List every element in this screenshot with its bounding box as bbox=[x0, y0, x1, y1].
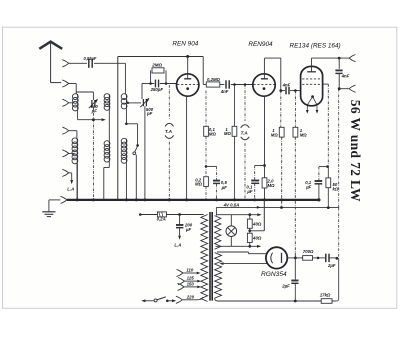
wire mains pole to switch bbox=[141, 299, 145, 302]
resistor 17kOhm field bbox=[321, 299, 332, 304]
svg-text:MΩ: MΩ bbox=[209, 131, 217, 136]
coil L5 bbox=[125, 139, 127, 163]
terminal tap 150V bbox=[178, 283, 185, 290]
svg-text:150: 150 bbox=[187, 281, 195, 286]
coil L6 secondary LW bbox=[108, 141, 110, 162]
wire T7 to ground bbox=[49, 199, 60, 201]
capacitor 0,5uF bbox=[216, 166, 218, 180]
node TA2 tap bbox=[244, 83, 247, 86]
terminal speaker - bbox=[349, 85, 356, 92]
resistor 700Ohm smoothing bbox=[303, 256, 313, 261]
svg-text:T.A: T.A bbox=[241, 130, 248, 135]
resistor 0.2MOhm lower bbox=[204, 177, 209, 187]
capacitor 0,1uF cathode bypass bbox=[251, 180, 259, 182]
wire cap to output line bbox=[329, 257, 336, 259]
svg-text:kΩ: kΩ bbox=[333, 187, 339, 192]
svg-text:56 W und 72 LW: 56 W und 72 LW bbox=[348, 100, 363, 202]
svg-text:MΩ: MΩ bbox=[300, 132, 308, 137]
terminal T1 antenna input bbox=[62, 60, 69, 67]
mains switch bbox=[154, 299, 157, 302]
svg-text:µF: µF bbox=[185, 227, 191, 232]
right rail wire bbox=[338, 89, 340, 208]
wire V2 cathode down bbox=[264, 96, 266, 165]
terminal tap 125V bbox=[178, 278, 185, 285]
terminal T4 bbox=[62, 127, 69, 134]
wire HV filament return with plug arrow bbox=[219, 262, 223, 265]
wire V1 cathode to bus bbox=[186, 96, 188, 200]
wire mains to fuse bbox=[139, 213, 142, 216]
wire L1 bottom to node bbox=[77, 111, 79, 120]
svg-text:0,2MΩ: 0,2MΩ bbox=[207, 77, 221, 82]
node cathode network bbox=[263, 164, 266, 167]
wire antenna down-lead bbox=[50, 42, 52, 83]
coil L3 secondary MW bbox=[108, 94, 110, 110]
node TA1 / connector T.A #1 bbox=[168, 85, 170, 120]
wire HV top to rectifier bbox=[217, 251, 249, 253]
svg-text:40Ω: 40Ω bbox=[252, 235, 262, 240]
transformer secondary 4V winding bbox=[215, 216, 221, 250]
terminal T3 bbox=[62, 99, 69, 106]
antenna symbol bbox=[39, 42, 62, 49]
terminal tap 220V bbox=[176, 296, 183, 303]
svg-text:RGN354: RGN354 bbox=[261, 271, 287, 278]
node on right rail bbox=[336, 257, 339, 260]
wire fuse to transformer primary bbox=[166, 214, 203, 216]
wire grid-return vertical x118 bbox=[117, 57, 119, 200]
node speaker cap bbox=[338, 57, 341, 60]
svg-text:L.A: L.A bbox=[67, 187, 74, 192]
terminal T7 ground/chassis bbox=[61, 196, 68, 203]
wire V3 anode top to speaker line bbox=[311, 58, 313, 66]
bus junctions bbox=[76, 198, 79, 201]
terminal speaker + bbox=[349, 55, 356, 62]
svg-text:4nF: 4nF bbox=[282, 82, 291, 87]
B+ supply wire y207 bbox=[216, 206, 338, 208]
node heater top bbox=[248, 213, 251, 216]
svg-text:MΩ: MΩ bbox=[195, 182, 203, 187]
coil L2 bbox=[76, 138, 78, 163]
wire anode chain x206 bbox=[205, 91, 207, 127]
svg-text:2µF: 2µF bbox=[281, 283, 290, 288]
wire cap to coil L4 top bbox=[94, 62, 125, 64]
node y166.6 jog bbox=[326, 165, 329, 168]
wire grid line y83.5 bbox=[142, 83, 154, 85]
transformer primary winding bbox=[201, 215, 208, 302]
svg-text:T.A: T.A bbox=[165, 129, 172, 134]
capacitor 0,05uF antenna series bbox=[88, 59, 90, 68]
node grid leak V2 bbox=[233, 83, 236, 86]
wire T1 to coupling cap bbox=[69, 62, 87, 64]
ground symbol bbox=[42, 211, 55, 213]
svg-text:REN904: REN904 bbox=[248, 41, 273, 48]
node B+ x281 bbox=[280, 206, 283, 209]
wire L4 bottom down bbox=[125, 109, 127, 124]
wire switch to bus bbox=[135, 155, 137, 200]
pins V3 filament bbox=[306, 106, 308, 112]
svg-text:MΩ: MΩ bbox=[224, 131, 232, 136]
coil L1 antenna primary bbox=[77, 94, 79, 111]
svg-text:0,2A: 0,2A bbox=[157, 217, 166, 222]
wire V3 side tap to bias network bbox=[323, 83, 329, 85]
terminal T5 bbox=[62, 150, 69, 157]
svg-text:µF: µF bbox=[221, 185, 227, 190]
capacitor 200uF mains antenna bbox=[179, 215, 181, 225]
tube V2 REN904 bbox=[253, 74, 275, 96]
node heater bottom bbox=[248, 245, 251, 248]
capacitor 4nF speaker bbox=[338, 58, 340, 69]
node V1 top cap bbox=[186, 55, 189, 58]
terminal T2 bbox=[62, 80, 69, 87]
wire T2 to coil L1 bbox=[69, 83, 76, 85]
capacitor 2uF reservoir bbox=[294, 278, 296, 281]
pilot lamp bbox=[226, 226, 237, 237]
junction L4/L5 switch branch bbox=[125, 123, 128, 126]
wire trimmer2 top to grid wire bbox=[141, 84, 143, 100]
ground return line bottom bbox=[218, 300, 321, 302]
svg-text:µF: µF bbox=[246, 189, 252, 194]
arrowhead on B+ wire bbox=[257, 206, 261, 209]
svg-text:MΩ: MΩ bbox=[271, 132, 279, 137]
svg-text:pF: pF bbox=[91, 108, 98, 113]
svg-text:700Ω: 700Ω bbox=[303, 249, 314, 254]
svg-text:2µF: 2µF bbox=[327, 263, 336, 268]
resistor 0.1MOhm bbox=[204, 126, 209, 136]
arrow heater bottom plug bbox=[250, 245, 257, 247]
bus end node bbox=[317, 198, 320, 201]
svg-text:125: 125 bbox=[187, 276, 195, 281]
resistor 1MOhm grid leak V3 bbox=[294, 91, 296, 128]
wire HV bottom to ground line bbox=[215, 298, 218, 301]
resistor 40Ohm lower bbox=[247, 233, 252, 242]
wire centre tap to bus bbox=[250, 230, 264, 232]
svg-text:4nF: 4nF bbox=[341, 73, 350, 78]
trimmer capacitor 500pF #1 bbox=[91, 100, 93, 107]
op tube V1 REN 904 bbox=[177, 74, 199, 96]
node x206 y166.4 bbox=[205, 165, 208, 168]
wire to wave switch bbox=[126, 123, 137, 125]
arrow heater top plug bbox=[250, 214, 258, 216]
svg-text:pF: pF bbox=[146, 111, 153, 116]
wire heater box bottom bbox=[216, 245, 250, 247]
resistor 2MOhm grid leak bbox=[149, 82, 152, 85]
wire L2 bottom to bus bbox=[76, 164, 78, 200]
wire corner x203 down to plate resistor bbox=[202, 57, 204, 85]
wire L4 tap to trimmer2 bbox=[127, 102, 129, 104]
resistor 1MOhm V2 grid leak bbox=[234, 85, 236, 127]
svg-text:110: 110 bbox=[186, 267, 193, 272]
arrow switch to 220 tap bbox=[167, 300, 172, 302]
svg-text:250pF: 250pF bbox=[150, 87, 164, 92]
wire sec1 top riser bbox=[215, 207, 217, 215]
svg-text:220: 220 bbox=[186, 294, 195, 299]
capacitor 4nF coupling bbox=[220, 84, 225, 86]
chassis bus wire bbox=[67, 199, 319, 201]
svg-text:40Ω: 40Ω bbox=[252, 221, 262, 226]
wire to V3 grid bbox=[290, 90, 301, 92]
tube V3 RE134 output bbox=[301, 66, 323, 105]
transformer HV secondary winding bbox=[215, 253, 222, 299]
svg-text:0,05µF: 0,05µF bbox=[84, 56, 97, 61]
svg-text:RE134 (RES 164): RE134 (RES 164) bbox=[290, 43, 341, 50]
svg-text:L.A: L.A bbox=[174, 242, 181, 247]
resistor 50kOhm bbox=[327, 167, 329, 178]
wire node left to cap bbox=[255, 165, 265, 167]
wire L5 bottom to bus bbox=[125, 163, 127, 200]
transformer core bbox=[209, 212, 211, 301]
svg-text:17kΩ: 17kΩ bbox=[320, 292, 331, 297]
resistor 1MOhm anode load V2 bbox=[280, 91, 282, 128]
junction trimmer C-t1 on wire bbox=[92, 118, 95, 121]
node grid leak V3 bbox=[294, 89, 297, 92]
wire trimmer1 bottom to bus bbox=[92, 107, 94, 200]
svg-text:µF: µF bbox=[305, 185, 311, 190]
wire T4 to coil L2 top bbox=[69, 130, 77, 132]
capacitor 0,1uF grid block bbox=[315, 180, 323, 182]
resistor 20kOhm bbox=[264, 166, 266, 178]
node B+ x328 bbox=[327, 206, 330, 209]
svg-text:MΩ: MΩ bbox=[268, 183, 276, 188]
wire heater box top bbox=[216, 214, 249, 216]
svg-text:4V 0,5A: 4V 0,5A bbox=[223, 202, 240, 207]
node heater centre tap bbox=[249, 228, 251, 233]
wave-change switch bbox=[136, 144, 139, 147]
wire V2 top cap jumper bbox=[263, 58, 265, 74]
node 200uF tap bbox=[178, 213, 181, 216]
tube V4 RGN354 rectifier bbox=[266, 247, 287, 268]
terminal T6 L.A bbox=[62, 169, 69, 176]
svg-text:2MΩ: 2MΩ bbox=[151, 62, 162, 67]
node after resistor bbox=[313, 257, 326, 259]
node x281 y90.6 bbox=[279, 89, 282, 92]
resistor 40Ohm upper bbox=[249, 215, 251, 219]
wire L3 bottom to L6 top bbox=[108, 110, 110, 141]
wire node to cap riser bbox=[206, 165, 217, 167]
wire trimmer1 top to L1 wire bbox=[92, 92, 94, 100]
svg-text:4nF: 4nF bbox=[220, 89, 229, 94]
wire L6 bottom jog to bus bbox=[108, 162, 110, 168]
svg-text:REN 904: REN 904 bbox=[172, 40, 198, 47]
wire trimmer2 bottom to bus bbox=[144, 106, 146, 200]
coil L4 secondary top bbox=[125, 94, 127, 109]
capacitor 4nF #2 coupling bbox=[281, 90, 285, 92]
capacitor 2uF smoothing bbox=[325, 254, 327, 262]
wire rectifier output bbox=[287, 257, 302, 259]
wire T3 to coil L1 tap bbox=[69, 102, 75, 104]
resistor 0.2MOhm anode V1 bbox=[206, 82, 220, 87]
wire T6 with arrow to L.A bbox=[69, 172, 72, 174]
fuse 0,2A bbox=[157, 212, 166, 217]
wire T5 to coil L2 tap bbox=[69, 152, 75, 154]
wire top grid bus y56.5 bbox=[118, 56, 203, 58]
node rect out bbox=[294, 257, 297, 260]
trimmer capacitor 500pF #2 bbox=[142, 99, 144, 106]
wire V1 top cap stub bbox=[187, 57, 189, 74]
capacitor 250pF grid bbox=[154, 80, 156, 88]
wire cap to V2 grid bbox=[231, 84, 253, 86]
terminal tap 110V bbox=[177, 269, 184, 276]
node reservoir tap bbox=[294, 300, 297, 303]
connector T.A #2 bbox=[244, 85, 246, 122]
node speaker return bbox=[338, 87, 341, 90]
